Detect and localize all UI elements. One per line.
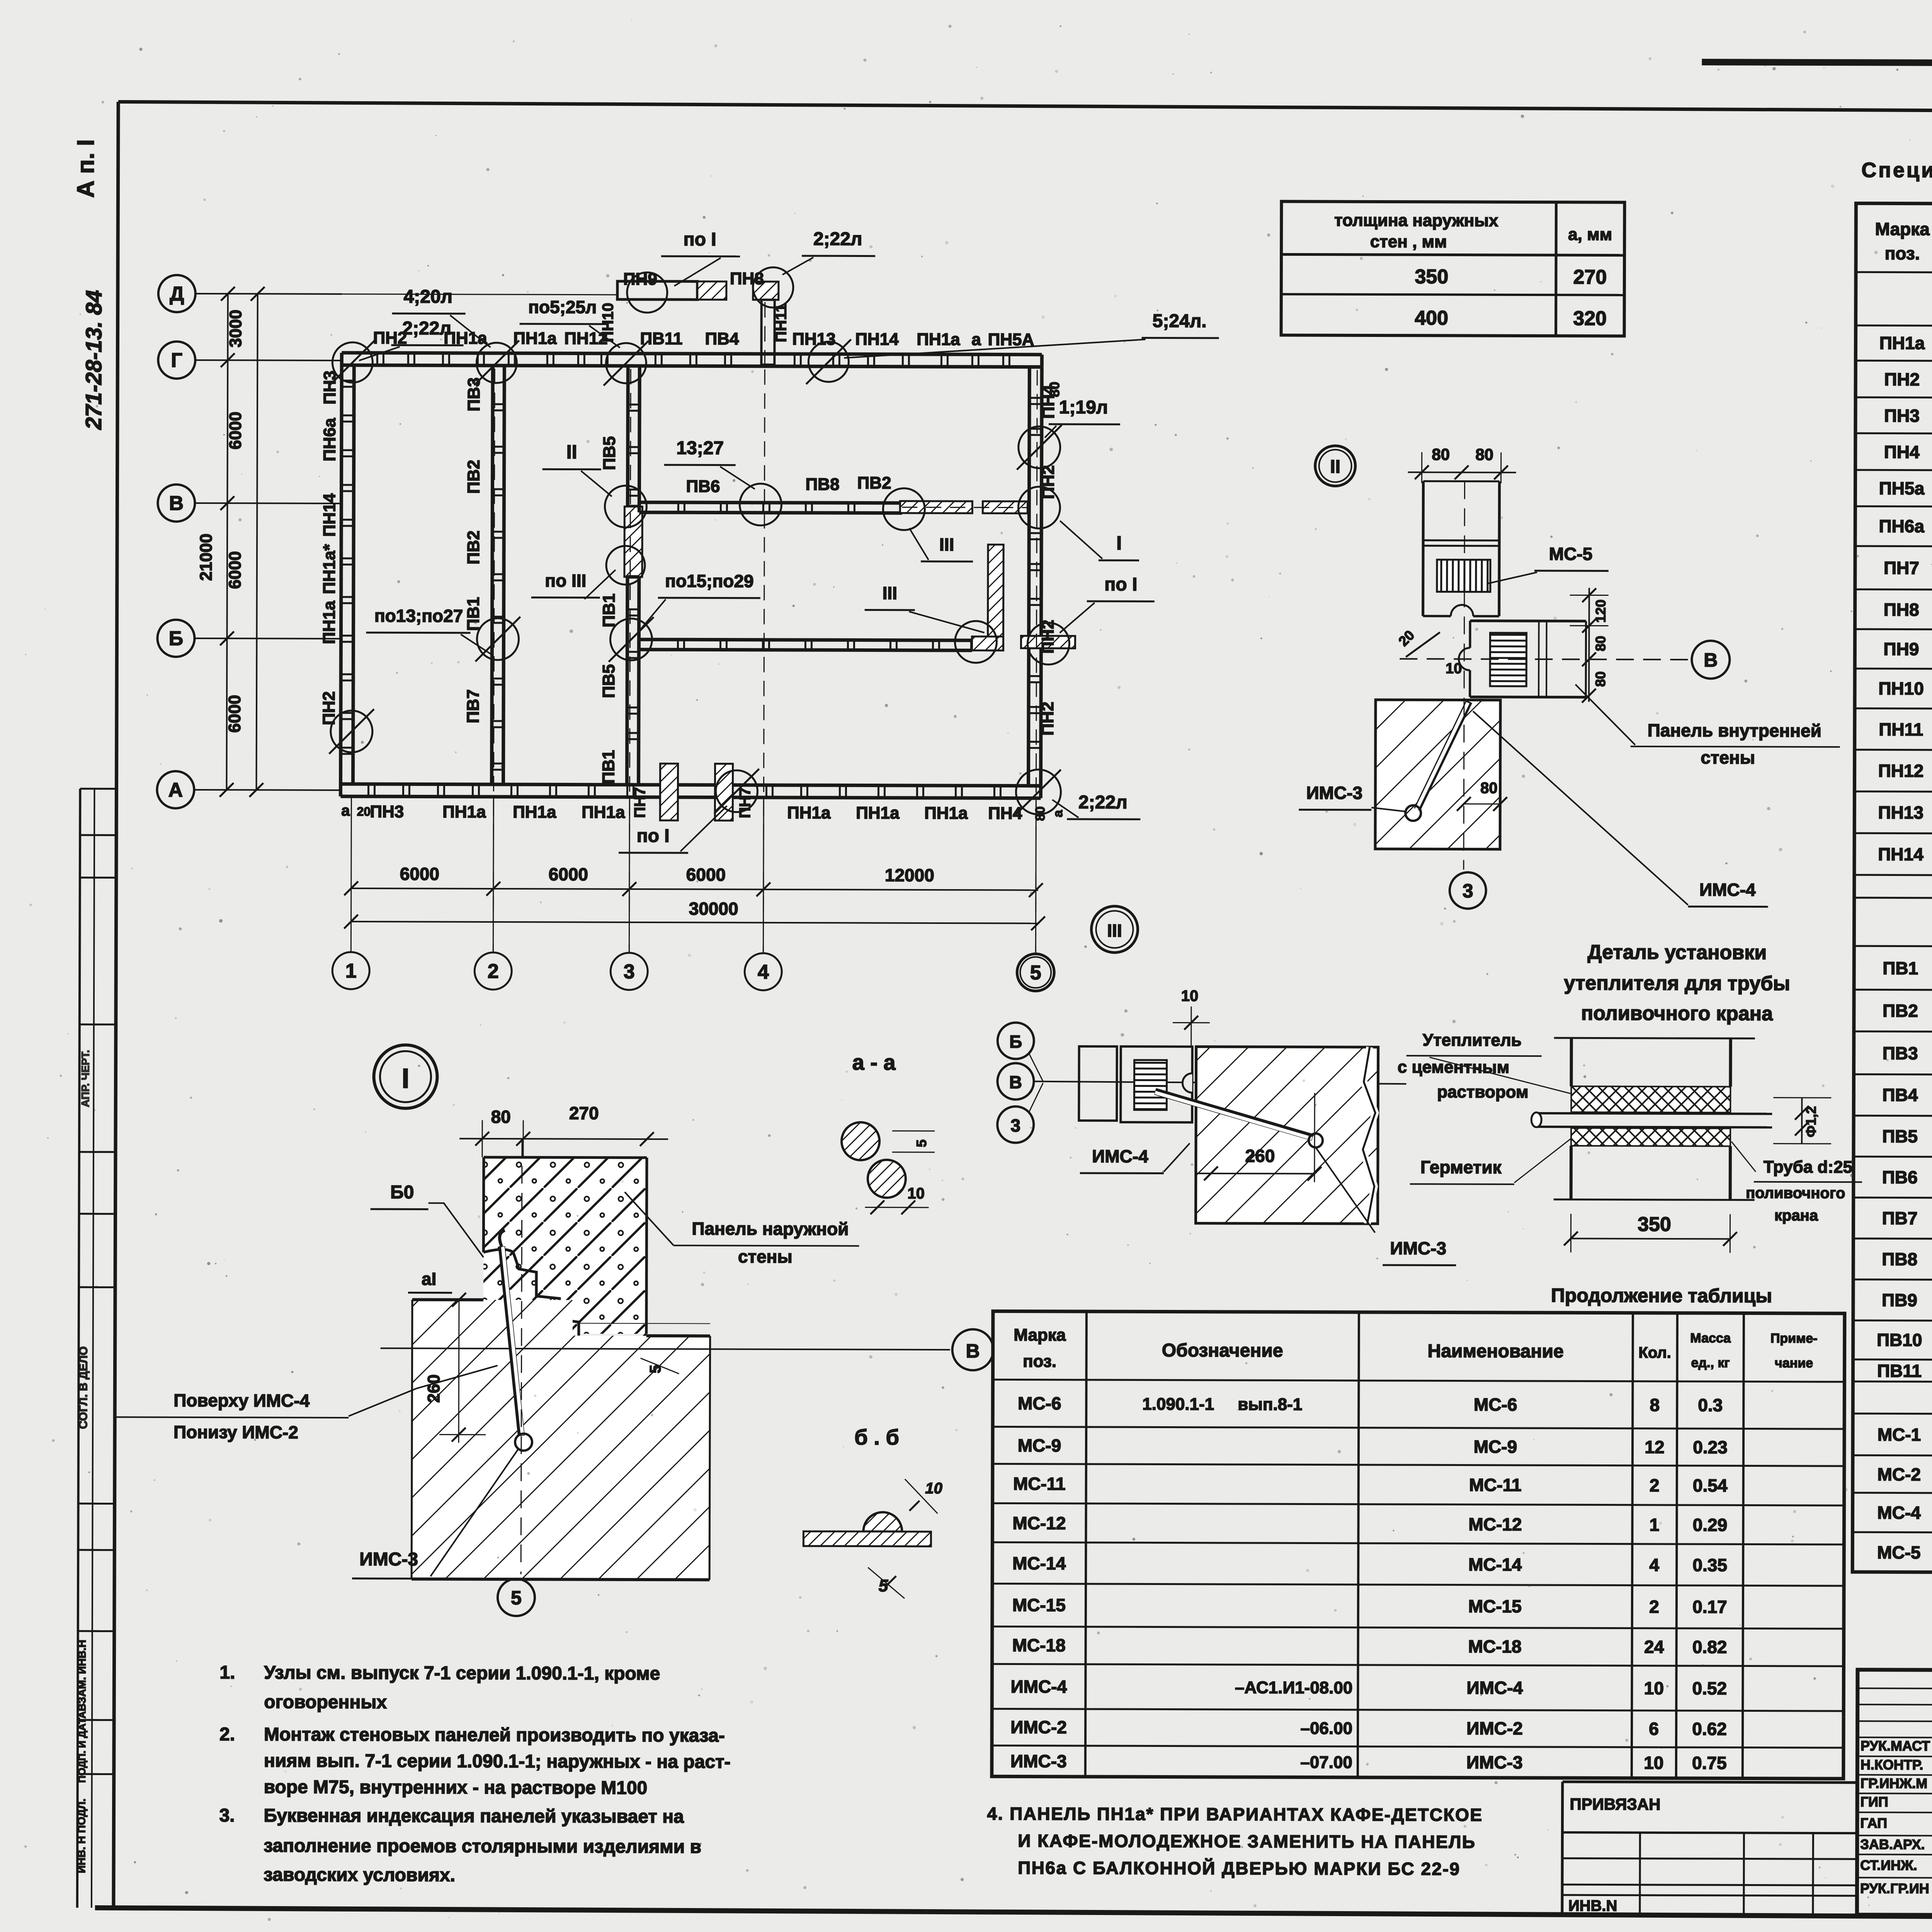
svg-text:Б: Б bbox=[1009, 1031, 1022, 1051]
plan node circle axis2 top 4-20l bbox=[476, 343, 517, 383]
svg-text:1.: 1. bbox=[219, 1662, 235, 1683]
svg-text:Д: Д bbox=[170, 283, 184, 305]
svg-text:І: І bbox=[1116, 532, 1122, 554]
detail I axis 5 dash line bbox=[521, 1139, 522, 1574]
plan interior wall axis 3 hatched pier bbox=[624, 507, 642, 577]
section a-a weld circles bbox=[842, 1122, 879, 1160]
svg-text:ПВ4: ПВ4 bbox=[705, 329, 739, 348]
svg-text:ПВ8: ПВ8 bbox=[1882, 1249, 1917, 1269]
svg-text:2;22л: 2;22л bbox=[813, 229, 862, 249]
svg-text:ИМС-4: ИМС-4 bbox=[1699, 879, 1756, 900]
privyazan box bbox=[1561, 1782, 1564, 1914]
detail I axis V circle bbox=[952, 1329, 993, 1370]
detail I axis circle 5 bbox=[498, 1579, 535, 1616]
svg-text:ПН6а: ПН6а bbox=[1879, 516, 1924, 536]
svg-text:ПВ2: ПВ2 bbox=[857, 473, 891, 492]
svg-text:ІІІ: ІІІ bbox=[1107, 920, 1122, 940]
plan section cut marks bbox=[330, 340, 375, 385]
detail II right dimension line bbox=[1588, 588, 1590, 702]
svg-text:ПН1а*: ПН1а* bbox=[320, 544, 339, 594]
svg-text:МС-18: МС-18 bbox=[1468, 1636, 1522, 1656]
svg-text:21000: 21000 bbox=[197, 534, 216, 581]
plan node circle top-left corner 2-22l bbox=[332, 342, 372, 383]
svg-text:4: 4 bbox=[758, 961, 769, 983]
svg-text:ИМС-3: ИМС-3 bbox=[359, 1549, 418, 1570]
svg-text:ІІ: ІІ bbox=[1330, 457, 1340, 477]
plan node circle axis3 top po5-25l bbox=[606, 343, 646, 383]
svg-text:4: 4 bbox=[1649, 1555, 1659, 1575]
svg-text:ПВ4: ПВ4 bbox=[1882, 1085, 1918, 1105]
plan interior wall axis 2 bbox=[492, 366, 493, 784]
svg-text:ПН4: ПН4 bbox=[988, 804, 1022, 823]
svg-text:–АС1.И1-08.00: –АС1.И1-08.00 bbox=[1235, 1678, 1353, 1697]
svg-text:по5;25л: по5;25л bbox=[528, 297, 597, 317]
detail II small dim 20 diagonal bbox=[1406, 632, 1440, 657]
svg-text:Наименование: Наименование bbox=[1427, 1341, 1563, 1362]
plan vestibule node circle po I bbox=[627, 272, 667, 313]
svg-text:Узлы см. выпуск 7-1 серии: Узлы см. выпуск 7-1 серии 1.090.1-1, кро… bbox=[264, 1662, 660, 1684]
detail II anchor tie IMC-3 rod bbox=[1417, 701, 1469, 810]
svg-text:ПН4: ПН4 bbox=[1039, 384, 1058, 419]
svg-text:ИНВ.N: ИНВ.N bbox=[1568, 1897, 1617, 1914]
detail III break zigzag bbox=[1363, 1047, 1376, 1224]
svg-text:Н.КОНТР.: Н.КОНТР. bbox=[1861, 1757, 1923, 1772]
svg-text:ИМС-4: ИМС-4 bbox=[1092, 1146, 1148, 1166]
svg-text:Б0: Б0 bbox=[390, 1182, 414, 1202]
plan column axis extension lines bbox=[351, 796, 351, 952]
plan node circle 5-24l bbox=[808, 342, 849, 382]
svg-text:ПН8: ПН8 bbox=[1884, 599, 1919, 619]
svg-text:МС-5: МС-5 bbox=[1877, 1542, 1921, 1562]
svg-text:Поверху ИМС-4: Поверху ИМС-4 bbox=[173, 1390, 310, 1411]
svg-text:по ІІІ: по ІІІ bbox=[545, 570, 586, 590]
pipe detail top insulation crosshatch bbox=[1571, 1086, 1730, 1112]
svg-text:270: 270 bbox=[569, 1103, 599, 1123]
svg-text:Ф1,2: Ф1,2 bbox=[1803, 1106, 1819, 1137]
svg-text:12000: 12000 bbox=[885, 865, 934, 885]
detail III title circle bbox=[1091, 906, 1138, 952]
svg-text:12: 12 bbox=[1645, 1437, 1664, 1457]
svg-text:ПН14: ПН14 bbox=[1878, 844, 1923, 864]
svg-text:ПН6а С БАЛКОННОЙ ДВЕРЬЮ МАРКИ: ПН6а С БАЛКОННОЙ ДВЕРЬЮ МАРКИ БС 22-9 bbox=[1018, 1858, 1460, 1879]
svg-text:10: 10 bbox=[1181, 988, 1199, 1005]
detail I anchor rod bbox=[501, 1247, 522, 1436]
svg-text:поливочного крана: поливочного крана bbox=[1581, 1002, 1773, 1025]
detail II axis circle 3 bottom bbox=[1450, 872, 1486, 908]
svg-text:МС-5: МС-5 bbox=[1549, 544, 1593, 564]
svg-text:0.82: 0.82 bbox=[1692, 1637, 1727, 1657]
svg-text:стен , мм: стен , мм bbox=[1370, 232, 1447, 252]
title block outer frame bbox=[1857, 1670, 1932, 1917]
plan right exterior wall axis 5 bbox=[1028, 367, 1029, 786]
svg-text:ГР.ИНЖ.М: ГР.ИНЖ.М bbox=[1861, 1775, 1928, 1791]
svg-text:поливочного: поливочного bbox=[1746, 1184, 1845, 1202]
detail III wall notch arc bbox=[1182, 1073, 1192, 1093]
svg-text:ПН11: ПН11 bbox=[1879, 719, 1923, 739]
plan bottom pier hatched 2 bbox=[715, 764, 733, 820]
svg-text:Масса: Масса bbox=[1690, 1331, 1731, 1345]
plan node circle bottom po I bbox=[716, 770, 757, 812]
svg-text:Деталь установки: Деталь установки bbox=[1587, 941, 1767, 964]
svg-text:1;19л: 1;19л bbox=[1059, 397, 1108, 418]
svg-text:3000: 3000 bbox=[226, 310, 245, 347]
svg-text:МС-18: МС-18 bbox=[1012, 1635, 1066, 1655]
section b-b dim 5 bbox=[868, 1568, 905, 1599]
svg-text:МС-2: МС-2 bbox=[1878, 1464, 1921, 1484]
plan vertical dimension line 21000 bbox=[256, 294, 257, 790]
svg-text:ВЗАМ. ИНВ.Н: ВЗАМ. ИНВ.Н bbox=[76, 1640, 88, 1711]
detail II horizontal wall hatched insert bbox=[1490, 633, 1526, 686]
svg-text:ПН9: ПН9 bbox=[623, 270, 657, 289]
section b-b plate hatched strip bbox=[803, 1531, 931, 1546]
svg-text:ЗАВ.АРХ.: ЗАВ.АРХ. bbox=[1860, 1836, 1925, 1852]
svg-text:Б: Б bbox=[169, 628, 184, 650]
svg-text:5: 5 bbox=[511, 1587, 522, 1609]
svg-text:ПН2: ПН2 bbox=[1038, 702, 1057, 736]
svg-text:2: 2 bbox=[488, 960, 499, 983]
svg-text:271-28-13. 84: 271-28-13. 84 bbox=[81, 290, 107, 430]
svg-text:ИМС-2: ИМС-2 bbox=[1010, 1717, 1067, 1737]
pipe detail top wall bbox=[1554, 1038, 1755, 1038]
plan node circle 13-27 axis V x4 bbox=[740, 484, 781, 526]
svg-text:ПН9: ПН9 bbox=[1883, 639, 1919, 659]
svg-text:ПН2: ПН2 bbox=[1038, 620, 1057, 654]
svg-text:0.23: 0.23 bbox=[1693, 1437, 1728, 1457]
svg-text:400: 400 bbox=[1415, 307, 1448, 329]
svg-text:МС-11: МС-11 bbox=[1469, 1475, 1522, 1495]
detail II vertical wall bbox=[1422, 481, 1425, 616]
plan axis V hatched pier right bbox=[900, 501, 972, 513]
svg-text:ПН2: ПН2 bbox=[320, 691, 338, 725]
svg-text:Монтаж стеновых панелей прои: Монтаж стеновых панелей производить по у… bbox=[264, 1724, 725, 1746]
svg-text:0.75: 0.75 bbox=[1692, 1753, 1727, 1773]
svg-text:ПН10: ПН10 bbox=[1878, 678, 1924, 698]
plan node circle right wall 1-19l bbox=[1019, 427, 1060, 468]
plan node circle po13-po27 axis2 axis B bbox=[477, 618, 519, 660]
pipe detail diameter dim bbox=[1801, 1098, 1803, 1144]
detail III axis line bbox=[1034, 1082, 1406, 1084]
svg-text:ПН1а: ПН1а bbox=[513, 329, 557, 348]
svg-text:СТ.ИНЖ.: СТ.ИНЖ. bbox=[1860, 1857, 1917, 1873]
svg-text:Панель внутренней: Панель внутренней bbox=[1648, 720, 1821, 741]
svg-text:270: 270 bbox=[1573, 266, 1607, 288]
svg-text:0.29: 0.29 bbox=[1693, 1515, 1728, 1535]
plan left exterior wall axis 1 bbox=[340, 365, 342, 784]
svg-text:ПН5а: ПН5а bbox=[1879, 478, 1925, 498]
svg-text:80: 80 bbox=[1475, 446, 1493, 464]
svg-text:крана: крана bbox=[1774, 1207, 1818, 1224]
svg-text:ПВ11: ПВ11 bbox=[640, 329, 682, 348]
svg-text:ПН4: ПН4 bbox=[1884, 442, 1920, 462]
detail III axis circles B V 3 bbox=[998, 1022, 1034, 1059]
svg-text:ПВ6: ПВ6 bbox=[1882, 1167, 1918, 1187]
detail I floor slab hatched bbox=[412, 1299, 710, 1580]
svg-text:МС-15: МС-15 bbox=[1012, 1595, 1066, 1615]
svg-text:80: 80 bbox=[491, 1107, 511, 1127]
specification table grid bbox=[1852, 203, 1932, 1574]
svg-text:260: 260 bbox=[424, 1374, 443, 1403]
plan bottom dimension 30000 bbox=[351, 922, 1038, 923]
detail III label IMC-3 bbox=[1315, 1148, 1375, 1233]
svg-text:ниям вып. 7-1 серии 1.090.1-: ниям вып. 7-1 серии 1.090.1-1; наружных … bbox=[264, 1750, 731, 1772]
svg-text:ПН6а: ПН6а bbox=[320, 418, 339, 461]
svg-text:0.62: 0.62 bbox=[1692, 1719, 1727, 1739]
plan bottom dimension chain 6000x3 12000 bbox=[351, 888, 1038, 890]
svg-text:10: 10 bbox=[1644, 1678, 1664, 1698]
svg-text:ПОДП. И ДАТА: ПОДП. И ДАТА bbox=[76, 1711, 88, 1782]
svg-text:МС-11: МС-11 bbox=[1013, 1474, 1066, 1494]
svg-text:4;20л: 4;20л bbox=[403, 286, 452, 307]
svg-text:5: 5 bbox=[1030, 962, 1041, 984]
svg-text:СОГЛ. В ДЕЛО: СОГЛ. В ДЕЛО bbox=[77, 1346, 90, 1429]
svg-text:24: 24 bbox=[1644, 1637, 1664, 1657]
svg-text:ИМС-3: ИМС-3 bbox=[1010, 1751, 1067, 1771]
svg-text:стены: стены bbox=[1701, 747, 1755, 767]
svg-text:МС-15: МС-15 bbox=[1468, 1596, 1522, 1616]
svg-text:раствором: раствором bbox=[1437, 1082, 1529, 1102]
svg-text:а: а bbox=[1051, 810, 1065, 817]
plan axis V hatched pier at wall 5 bbox=[983, 501, 1027, 513]
plan node circle III right axis B bbox=[955, 621, 997, 663]
svg-text:ПВ1: ПВ1 bbox=[599, 750, 618, 784]
svg-text:Понизу ИМС-2: Понизу ИМС-2 bbox=[173, 1422, 298, 1442]
svg-text:ПН1а: ПН1а bbox=[444, 329, 487, 348]
plan axis B hatched pier at wall 5 bbox=[1021, 636, 1075, 648]
plan node circle I at right wall axis V bbox=[1018, 487, 1060, 529]
svg-text:6: 6 bbox=[1649, 1719, 1659, 1739]
svg-text:3: 3 bbox=[1463, 880, 1473, 902]
svg-text:ІІ: ІІ bbox=[566, 441, 577, 463]
detail III anchor rod IMC-4 bbox=[1155, 1091, 1313, 1137]
detail II horizontal wall joint lines bbox=[1538, 621, 1540, 697]
svg-text:0.54: 0.54 bbox=[1693, 1475, 1728, 1495]
svg-text:ПН3: ПН3 bbox=[370, 802, 404, 821]
plan axis B L-shaped hatched wall foot bbox=[972, 636, 1003, 650]
svg-text:МС-9: МС-9 bbox=[1018, 1435, 1061, 1456]
svg-text:ИМС-3: ИМС-3 bbox=[1466, 1752, 1523, 1772]
svg-text:по І: по І bbox=[637, 826, 670, 846]
svg-text:ПН14: ПН14 bbox=[320, 493, 339, 537]
svg-text:а - а: а - а bbox=[852, 1050, 896, 1074]
svg-text:ПН2: ПН2 bbox=[1884, 369, 1920, 389]
plan node circle po I at right wall axis B bbox=[1027, 623, 1069, 665]
svg-text:3.: 3. bbox=[219, 1805, 235, 1826]
svg-text:ПН1а: ПН1а bbox=[917, 330, 960, 349]
svg-text:ПВ9: ПВ9 bbox=[1882, 1290, 1917, 1310]
svg-text:ПВ2: ПВ2 bbox=[464, 531, 483, 565]
top registration black bar bbox=[1702, 59, 1932, 68]
svg-text:10: 10 bbox=[925, 1480, 942, 1497]
svg-text:Обозначение: Обозначение bbox=[1162, 1340, 1283, 1361]
svg-text:а, мм: а, мм bbox=[1568, 225, 1612, 244]
svg-text:ПВ6: ПВ6 bbox=[686, 477, 720, 496]
svg-text:Труба d:25: Труба d:25 bbox=[1764, 1158, 1852, 1177]
title block staff rows bbox=[1857, 1688, 1932, 1689]
svg-text:Панель наружной: Панель наружной bbox=[692, 1218, 849, 1239]
svg-text:Марка: Марка bbox=[1875, 219, 1930, 239]
svg-text:ПН8: ПН8 bbox=[730, 269, 764, 288]
plan node circle po III axis 3 bbox=[606, 546, 645, 585]
svg-text:80: 80 bbox=[1432, 445, 1450, 463]
svg-text:воре М75, внутренних - на ра: воре М75, внутренних - на растворе М100 bbox=[264, 1777, 648, 1798]
plan node circle bottom left 1-19l bbox=[331, 711, 372, 752]
svg-text:В: В bbox=[966, 1340, 980, 1362]
detail II horizontal wall notch arc bbox=[1459, 648, 1470, 670]
svg-text:по15;по29: по15;по29 bbox=[665, 571, 754, 591]
svg-text:МС-4: МС-4 bbox=[1877, 1502, 1921, 1522]
svg-text:0.52: 0.52 bbox=[1692, 1678, 1727, 1698]
svg-text:1: 1 bbox=[345, 960, 357, 982]
svg-text:АПР. ЧЕРТ.: АПР. ЧЕРТ. bbox=[79, 1050, 91, 1107]
svg-text:ИМС-2: ИМС-2 bbox=[1466, 1718, 1523, 1738]
svg-text:ПВ11: ПВ11 bbox=[1877, 1361, 1922, 1381]
svg-text:ПН1а: ПН1а bbox=[787, 803, 831, 822]
svg-text:80: 80 bbox=[1592, 636, 1608, 651]
detail III second wall block bbox=[1121, 1046, 1192, 1122]
svg-text:оговоренных: оговоренных bbox=[264, 1692, 387, 1713]
svg-text:ГИП: ГИП bbox=[1861, 1794, 1888, 1810]
sheet frame border bbox=[118, 102, 1932, 114]
svg-text:ПВ2: ПВ2 bbox=[464, 460, 483, 494]
svg-text:0.17: 0.17 bbox=[1692, 1597, 1727, 1617]
svg-text:ПВ7: ПВ7 bbox=[464, 689, 483, 723]
detail II exterior panel hatched block bbox=[1375, 700, 1500, 849]
svg-text:10: 10 bbox=[1644, 1753, 1663, 1773]
detail II title circle bbox=[1315, 446, 1355, 486]
svg-text:ІІІ: ІІІ bbox=[939, 534, 954, 554]
svg-text:5: 5 bbox=[913, 1139, 929, 1147]
section b-b weld blob bbox=[863, 1512, 902, 1532]
plan interior wall axis V bbox=[639, 502, 902, 503]
svg-text:МС-12: МС-12 bbox=[1468, 1514, 1522, 1534]
svg-text:20: 20 bbox=[357, 804, 371, 818]
plan vestibule node circle 2-22l bbox=[753, 267, 793, 308]
left filing strip boxes bbox=[77, 789, 80, 1908]
svg-text:В: В bbox=[1009, 1072, 1022, 1092]
svg-text:10: 10 bbox=[1446, 660, 1462, 677]
svg-text:И КАФЕ-МОЛОДЕЖНОЕ ЗАМЕНИТЬ НА: И КАФЕ-МОЛОДЕЖНОЕ ЗАМЕНИТЬ НА ПАНЕЛЬ bbox=[1018, 1831, 1476, 1852]
plan interior wall axis 3 lower bbox=[627, 577, 627, 785]
svg-text:4. ПАНЕЛЬ ПН1а* ПРИ ВАРИАНТАХ: 4. ПАНЕЛЬ ПН1а* ПРИ ВАРИАНТАХ КАФЕ-ДЕТСК… bbox=[987, 1803, 1483, 1825]
svg-text:0.35: 0.35 bbox=[1692, 1555, 1727, 1575]
svg-text:13;27: 13;27 bbox=[676, 438, 724, 458]
svg-text:ПН1а: ПН1а bbox=[924, 804, 968, 823]
svg-text:ПН10: ПН10 bbox=[599, 303, 616, 342]
svg-text:ПН1а: ПН1а bbox=[320, 600, 338, 644]
svg-text:ПН12: ПН12 bbox=[1878, 760, 1924, 781]
pipe detail bottom insulation crosshatch bbox=[1571, 1128, 1730, 1146]
svg-text:Утеплитель: Утеплитель bbox=[1423, 1031, 1522, 1050]
svg-text:30000: 30000 bbox=[689, 898, 738, 918]
detail I exterior panel concrete block bbox=[483, 1157, 647, 1364]
svg-text:Герметик: Герметик bbox=[1420, 1157, 1502, 1177]
pipe detail dim 350 bbox=[1571, 1238, 1730, 1239]
svg-text:ПН1а: ПН1а bbox=[442, 803, 486, 821]
section a-a dim 10 bbox=[865, 1207, 929, 1208]
detail II axis 3 dash line bbox=[1464, 481, 1465, 870]
svg-text:МС-14: МС-14 bbox=[1012, 1553, 1066, 1573]
detail II vertical wall hatched insert bbox=[1437, 560, 1490, 592]
svg-text:6000: 6000 bbox=[226, 551, 245, 589]
svg-text:–06.00: –06.00 bbox=[1300, 1719, 1352, 1738]
svg-text:ПН13: ПН13 bbox=[792, 330, 835, 349]
svg-text:заполнение проемов столярным: заполнение проемов столярными изделиями … bbox=[264, 1835, 701, 1857]
svg-text:ПН7: ПН7 bbox=[736, 787, 753, 818]
detail II axis dashed line to V bbox=[1400, 659, 1690, 660]
section b-b dim 10 bbox=[905, 1479, 938, 1514]
svg-text:по І: по І bbox=[1104, 574, 1137, 595]
svg-text:ИМС-3: ИМС-3 bbox=[1390, 1238, 1447, 1258]
plan bottom exterior wall axis A bbox=[340, 784, 1041, 786]
svg-text:МС-6: МС-6 bbox=[1018, 1393, 1061, 1413]
svg-text:3: 3 bbox=[1010, 1115, 1020, 1135]
plan vestibule hatched pier 2 bbox=[753, 282, 779, 300]
svg-text:МС-9: МС-9 bbox=[1474, 1437, 1517, 1457]
svg-text:ІІІ: ІІІ bbox=[883, 583, 897, 603]
svg-text:320: 320 bbox=[1573, 307, 1607, 330]
svg-text:6000: 6000 bbox=[686, 864, 726, 884]
svg-text:1.090.1-1 вып.8-1: 1.090.1-1 вып.8-1 bbox=[1142, 1395, 1302, 1414]
svg-text:–07.00: –07.00 bbox=[1300, 1753, 1352, 1772]
svg-text:ПВ10: ПВ10 bbox=[1877, 1330, 1922, 1350]
svg-text:аІ: аІ bbox=[422, 1269, 437, 1289]
svg-text:3: 3 bbox=[624, 961, 635, 983]
svg-text:ПН1а: ПН1а bbox=[513, 803, 556, 821]
svg-text:ПН1а: ПН1а bbox=[1879, 333, 1925, 353]
svg-text:А: А bbox=[168, 779, 183, 801]
svg-text:ПРИВЯЗАН: ПРИВЯЗАН bbox=[1570, 1795, 1661, 1813]
svg-text:6000: 6000 bbox=[226, 412, 245, 449]
svg-text:80: 80 bbox=[1033, 806, 1048, 821]
svg-text:ПН3: ПН3 bbox=[320, 371, 339, 405]
svg-text:8: 8 bbox=[1650, 1395, 1660, 1415]
svg-text:6000: 6000 bbox=[400, 864, 439, 884]
plan interior wall axis B bbox=[639, 639, 972, 640]
detail II axis circle V bbox=[1692, 641, 1730, 679]
svg-text:МС-12: МС-12 bbox=[1012, 1513, 1066, 1533]
plan node circle po15-po29 axis3 axis B bbox=[610, 619, 652, 660]
detail II wall notch arc bbox=[1451, 605, 1473, 616]
svg-text:6000: 6000 bbox=[549, 864, 588, 884]
svg-text:ПН3: ПН3 bbox=[1884, 405, 1920, 425]
svg-text:ПН13: ПН13 bbox=[1878, 802, 1924, 822]
plan axis dashed centerlines vertical bbox=[493, 369, 495, 952]
svg-text:ПВ7: ПВ7 bbox=[1882, 1208, 1918, 1228]
svg-text:ПН5А: ПН5А bbox=[988, 330, 1034, 349]
svg-text:Марка: Марка bbox=[1014, 1326, 1066, 1345]
svg-text:Буквенная индексация панелей: Буквенная индексация панелей указывает н… bbox=[264, 1805, 684, 1827]
svg-text:120: 120 bbox=[1593, 599, 1609, 622]
svg-text:утеплителя для трубы: утеплителя для трубы bbox=[1564, 972, 1790, 995]
svg-text:а: а bbox=[341, 802, 350, 819]
svg-text:ПН11: ПН11 bbox=[772, 304, 789, 342]
svg-text:2: 2 bbox=[1650, 1475, 1660, 1495]
svg-text:1: 1 bbox=[1650, 1515, 1660, 1535]
detail I axis V line bbox=[381, 1348, 950, 1350]
svg-text:поз.: поз. bbox=[1023, 1352, 1056, 1371]
svg-text:ИМС-4: ИМС-4 bbox=[1011, 1676, 1067, 1696]
plan top exterior wall axis G bbox=[342, 353, 1042, 355]
svg-text:поз.: поз. bbox=[1885, 243, 1920, 263]
plan axis B L-shaped hatched wall vertical bbox=[988, 544, 1003, 650]
plan node circle II on axis 3 bbox=[605, 486, 646, 527]
svg-text:ед., кг: ед., кг bbox=[1691, 1355, 1730, 1370]
svg-text:ПН1а: ПН1а bbox=[856, 803, 900, 822]
svg-text:Кол.: Кол. bbox=[1638, 1344, 1671, 1361]
svg-text:80: 80 bbox=[1480, 780, 1498, 797]
plan node circle bottom right corner 2-22l bbox=[1016, 770, 1061, 815]
detail III hatched insert bbox=[1134, 1060, 1167, 1110]
